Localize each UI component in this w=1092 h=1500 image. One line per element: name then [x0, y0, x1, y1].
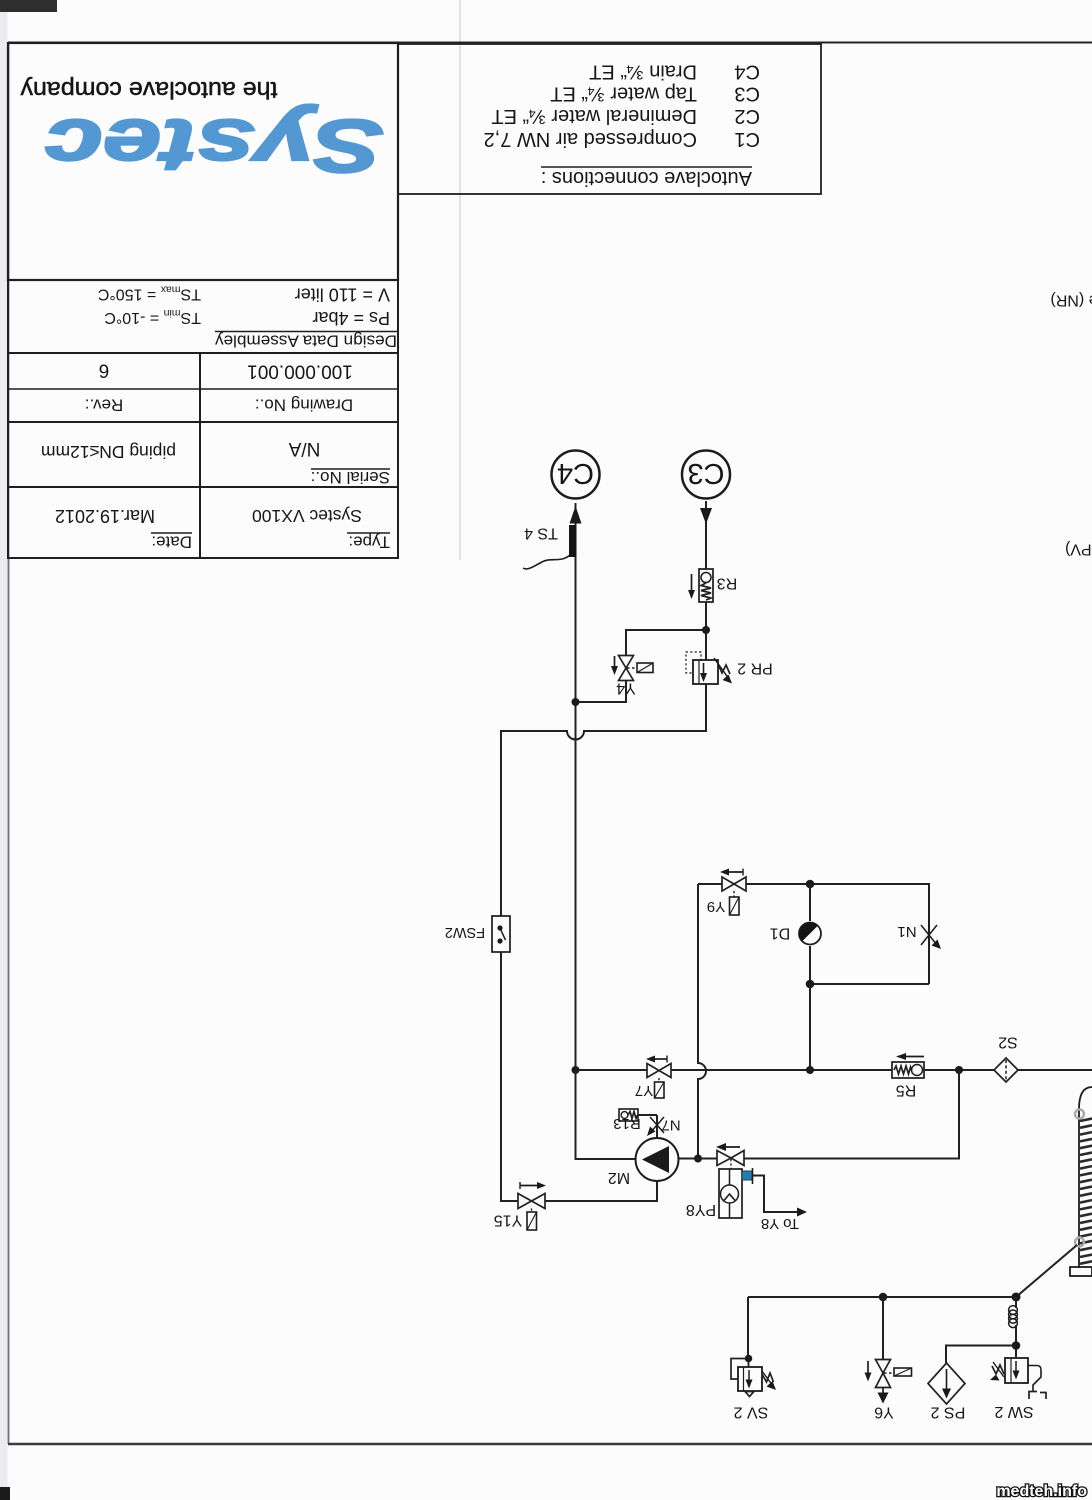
check valve R5 [892, 1053, 924, 1098]
junction node Y9 branch / D1 [806, 880, 815, 889]
wire Y9 branch right segment [746, 884, 929, 984]
wire Y4 branch lower [576, 681, 627, 703]
flow arrow to C4 [570, 506, 582, 524]
svg-text:(PV): (PV) [1065, 541, 1092, 558]
solenoid valve Y15 [494, 1182, 546, 1230]
svg-text:V = 110 liter: V = 110 liter [295, 285, 390, 305]
svg-text:SW 2: SW 2 [994, 1403, 1033, 1420]
scan artifact bottom-left dark mark [0, 1487, 10, 1500]
svg-text:PS 2: PS 2 [931, 1403, 966, 1420]
drawing frame top edge [8, 42, 1092, 44]
drawing frame bottom edge [8, 1443, 1092, 1445]
gauge siphon coil [1009, 1306, 1018, 1328]
svg-text:R5: R5 [896, 1081, 917, 1098]
proportional valve PY8 [686, 1143, 753, 1218]
wire FSW2 down to Y15 [501, 952, 518, 1201]
junction node PS2 branch [1012, 1341, 1021, 1350]
junction node manifold / Y6 [879, 1293, 888, 1302]
svg-text:Mar.19.2012: Mar.19.2012 [55, 506, 155, 526]
wire coil to SW2 [1015, 1325, 1017, 1357]
check valve R13 [613, 1109, 641, 1132]
throttle valve N7 [647, 1116, 681, 1136]
wire Y9 branch left segment [698, 883, 722, 885]
junction node manifold / vessel drain [1012, 1293, 1021, 1302]
wire main line R5 to filter S2 [924, 1069, 994, 1071]
junction node SV2 inlet [745, 1355, 753, 1363]
svg-text:D1: D1 [770, 924, 791, 941]
node C3 connection circle [682, 451, 730, 499]
check valve R3 [688, 569, 737, 602]
pressure switch PS 2 [928, 1363, 965, 1420]
junction node main line / D1 branch [806, 1066, 814, 1074]
svg-text:Autoclave connections :: Autoclave connections : [541, 167, 752, 189]
node C4 connection circle [552, 451, 600, 499]
vessel dome edge [1079, 1087, 1092, 1109]
svg-text:6: 6 [99, 359, 110, 380]
vessel wall [1078, 1109, 1080, 1268]
wire D1 top lead [809, 884, 811, 921]
svg-text:TSmin = -10°C: TSmin = -10°C [104, 307, 201, 326]
pressure regulator PR 2 [686, 652, 773, 684]
svg-text:Ps = 4bar: Ps = 4bar [312, 308, 390, 328]
wire main line left segment [576, 1069, 648, 1071]
svg-text:100.000.001: 100.000.001 [247, 360, 353, 381]
flow switch FSW2 [445, 916, 510, 952]
junction node pump outlet [694, 1155, 702, 1163]
wire Y6 branch [882, 1297, 884, 1359]
wire Y15 to pump M2 bottom [545, 1180, 657, 1201]
wire PS2 branch [946, 1346, 1016, 1364]
svg-text:Drain ¾“ ET: Drain ¾“ ET [589, 61, 697, 83]
junction node main line / PY8 riser [955, 1066, 963, 1074]
junction node R3/Y4 [702, 626, 710, 634]
title block: logo box [8, 43, 398, 280]
wire Y9 riser with hop over main line [698, 884, 706, 1158]
svg-text:Y9: Y9 [707, 898, 725, 915]
wire pump M2 top to throttle N7 [656, 1115, 658, 1138]
wire C4 line to pump M2 inlet [576, 1070, 636, 1159]
svg-text:Date:: Date: [151, 533, 192, 552]
flow arrow from C3 [700, 508, 712, 524]
wire PY8 pilot to Y8 with arrow [753, 1176, 807, 1232]
svg-text:M2: M2 [608, 1169, 630, 1186]
vessel coil lower connection [1075, 1238, 1084, 1247]
title block: design data cell [8, 280, 398, 353]
solenoid valve Y9 [707, 869, 746, 916]
junction node loop bottom [806, 980, 815, 989]
filter S2 [994, 1033, 1018, 1082]
svg-text:piping DN≤12mm: piping DN≤12mm [41, 442, 176, 462]
vessel base flange [1070, 1267, 1092, 1276]
svg-text:N7: N7 [661, 1116, 680, 1133]
wire PY8 outlet to main line riser [744, 1070, 959, 1159]
wire C4 drop line [575, 503, 577, 1159]
solenoid valve Y6 [865, 1360, 912, 1421]
safety valve SW 2 [990, 1358, 1046, 1420]
pump M2 [608, 1138, 679, 1186]
title block: type/date row [8, 487, 398, 558]
svg-text:Compressed air NW 7,2: Compressed air NW 7,2 [484, 128, 697, 150]
title block: serial row [8, 422, 398, 487]
wire pump M2 outlet to valve PY8 [679, 1158, 718, 1160]
svg-text:C4: C4 [734, 61, 760, 83]
wire bottom manifold header [748, 1296, 1016, 1298]
throttle valve N1 [897, 923, 941, 949]
svg-text:Systec: Systec [45, 104, 384, 188]
autoclave connections box [398, 44, 821, 194]
svg-text:Serial No.:: Serial No.: [311, 468, 390, 487]
wire loop bottom to main line [809, 984, 811, 1070]
svg-text:PR 2: PR 2 [737, 659, 773, 676]
svg-text:Y6: Y6 [874, 1403, 894, 1420]
svg-text:S2: S2 [998, 1033, 1018, 1050]
svg-text:Type:: Type: [348, 533, 390, 552]
svg-text:medteh.info: medteh.info [996, 1483, 1087, 1500]
svg-text:N1: N1 [897, 923, 916, 940]
svg-text:To Y8: To Y8 [761, 1215, 799, 1232]
title block: drawing number row [8, 353, 398, 422]
wire C3 to R3 [705, 501, 707, 569]
svg-text:C3: C3 [734, 83, 760, 105]
svg-text:FSW2: FSW2 [445, 924, 485, 940]
scan left edge shading [0, 0, 8, 1500]
svg-text:C3: C3 [687, 457, 724, 489]
wire SV2 branch [747, 1297, 749, 1358]
wire PR2 outlet to left riser with hop over C4 line [501, 684, 706, 916]
wire Y4 branch upper [626, 630, 706, 656]
rotation indicator D1 [770, 922, 821, 944]
svg-text:R3: R3 [717, 574, 738, 591]
svg-text:Rev.:: Rev.: [85, 396, 123, 415]
svg-text:the autoclave company: the autoclave company [21, 76, 278, 103]
svg-text:e (NR): e (NR) [1050, 292, 1092, 309]
svg-text:Systec VX100: Systec VX100 [252, 506, 362, 526]
svg-text:C2: C2 [734, 105, 760, 127]
svg-text:Y15: Y15 [494, 1211, 523, 1228]
svg-text:Y7: Y7 [635, 1082, 653, 1099]
svg-text:Tap water ¾“ ET: Tap water ¾“ ET [550, 83, 697, 105]
solenoid valve Y7 [635, 1056, 671, 1099]
solenoid valve Y4 [611, 656, 653, 697]
junction node Y4/C4 line [572, 698, 580, 706]
vessel heating coil fins [1080, 1119, 1092, 1264]
vessel coil upper connection [1075, 1110, 1084, 1119]
wire gauge coil branch [1015, 1297, 1017, 1308]
svg-text:C1: C1 [734, 128, 760, 150]
svg-text:N/A: N/A [288, 438, 320, 459]
svg-text:R13: R13 [613, 1115, 641, 1132]
svg-text:C4: C4 [557, 457, 594, 489]
wire main line Y7 to R5 [671, 1069, 892, 1071]
wire D1 bottom lead [809, 946, 811, 984]
svg-text:Drawing No.:: Drawing No.: [255, 396, 353, 415]
wire N1 down and bottom of D1/N1 loop [810, 983, 929, 985]
svg-text:TSmax = 150°C: TSmax = 150°C [98, 283, 201, 302]
drawing frame left edge [8, 42, 10, 1444]
safety valve SV 2 [731, 1359, 776, 1421]
svg-text:PY8: PY8 [686, 1201, 716, 1218]
svg-text:SV 2: SV 2 [734, 1403, 769, 1420]
wire main line S2 to vessel [1018, 1069, 1092, 1071]
scan fold line [459, 0, 461, 560]
svg-text:Demineral water ¾“ ET: Demineral water ¾“ ET [491, 105, 697, 127]
svg-text:Design Data Assembley: Design Data Assembley [215, 331, 397, 350]
wire diagonal vessel drain [1016, 1245, 1077, 1297]
temperature sensor TS 4 [523, 524, 577, 569]
svg-text:TS 4: TS 4 [524, 524, 558, 541]
wire R3 to PR2 [705, 602, 707, 660]
junction node main line / C4 line [572, 1066, 580, 1074]
scan artifact top-left dark strip [0, 0, 57, 12]
wire N7 to check valve R13 [638, 1114, 657, 1116]
